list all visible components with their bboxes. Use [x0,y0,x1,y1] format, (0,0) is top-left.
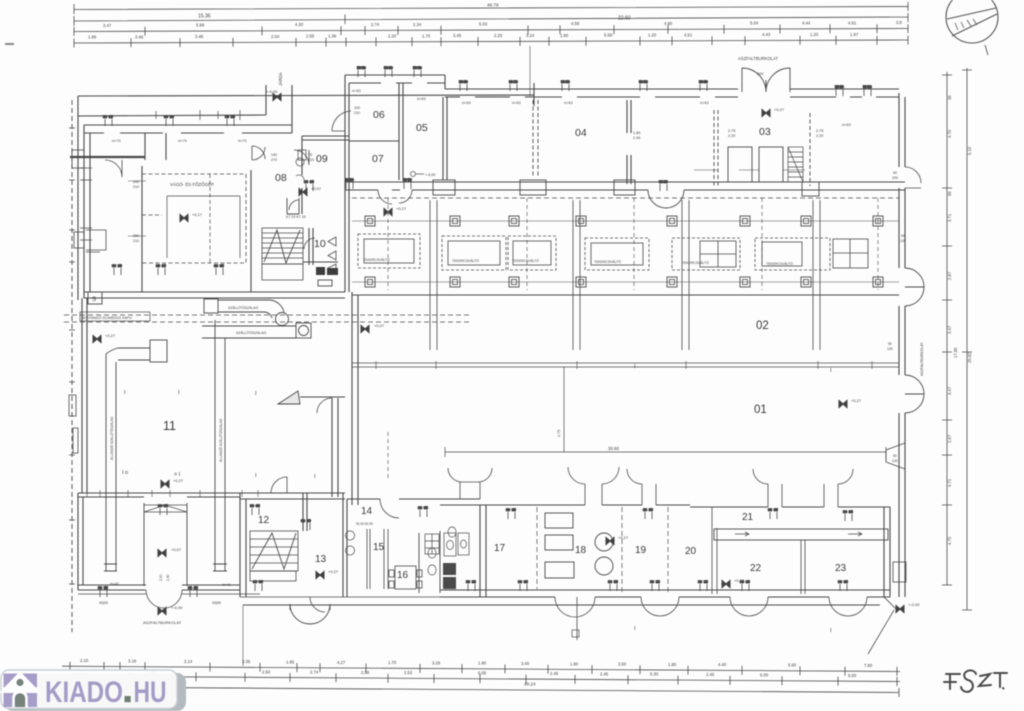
svg-text:I o: I o [122,470,128,476]
window flags bottom wall [98,504,853,597]
bottom door arc pair 4 [829,597,867,616]
corridor door arc into 09 [294,150,309,165]
svg-text:1.20: 1.20 [810,32,819,37]
svg-text:1.36: 1.36 [328,34,337,39]
bottom right corner diagonal leader [868,610,894,654]
svg-text:3.46: 3.46 [135,34,144,39]
svg-text:3.47: 3.47 [947,325,952,334]
svg-text:3.29: 3.29 [432,660,441,665]
svg-text:1.20: 1.20 [648,33,657,38]
svg-text:600: 600 [757,72,763,76]
svg-text:m=63: m=63 [352,89,361,93]
svg-text:2.55: 2.55 [306,34,315,39]
house door gray arch [15,693,25,707]
top dimension line A overall [74,2,908,14]
svg-text:4.30: 4.30 [295,22,304,27]
svg-text:1.80: 1.80 [633,131,640,135]
svg-text:m=70: m=70 [112,139,121,143]
svg-text:2.75: 2.75 [557,430,561,437]
svg-text:3.24: 3.24 [526,33,535,38]
corridor circle elevation mark [411,172,436,178]
svg-text:+-0,00: +-0,00 [266,89,278,94]
left property dashed line [71,100,73,632]
interior wall verticals [142,133,251,292]
svg-text:4.90: 4.90 [664,21,673,26]
svg-text:TEKERCSVÁLTÓ: TEKERCSVÁLTÓ [682,260,709,265]
vestibule door arcs [146,590,182,608]
room numbers bottom band [258,506,847,581]
svg-text:14: 14 [361,506,373,517]
svg-text:96: 96 [947,191,952,196]
svg-text:5.58: 5.58 [604,33,613,38]
period [1002,687,1005,690]
svg-text:m=70: m=70 [238,139,247,143]
svg-text:KIADO: KIADO [45,676,123,709]
svg-text:249: 249 [133,180,139,184]
svg-text:5.04: 5.04 [750,21,759,26]
room 14 door arc [380,499,399,518]
rooms 12/13 top wall [240,493,345,499]
svg-text:100: 100 [354,106,360,110]
logo house icon tile lavender [4,674,38,708]
room 03 interior rect 1 [728,147,752,182]
small cabinets left room [86,230,106,252]
svg-text:1.85: 1.85 [286,660,295,665]
svg-text:+0,27: +0,27 [105,333,116,338]
svg-text:11: 11 [163,419,176,433]
letter T [994,673,1007,687]
svg-text:2.45: 2.45 [550,671,559,676]
vago room inner line [142,174,210,263]
svg-text:2.45: 2.45 [706,672,715,677]
svg-text:210: 210 [133,239,139,243]
right room dim line [694,169,805,171]
machine group 3 [508,236,556,270]
rooms 18-23 top wall with niches [440,505,890,507]
west wall outer rect [72,150,84,168]
bench arrows [735,532,862,536]
partition 18|19 dashed [621,507,623,594]
svg-text:90 90 90 90: 90 90 90 90 [356,522,373,526]
svg-text:5.03: 5.03 [479,22,488,27]
svg-text:2.45: 2.45 [600,671,609,676]
svg-text:3.45: 3.45 [453,33,462,38]
niche doors arcs into hall [568,467,619,505]
bottom door arc pair 3 [730,597,768,616]
svg-text:21: 21 [742,512,754,523]
svg-text:200: 200 [892,176,898,180]
svg-text:49.78: 49.78 [487,3,499,8]
left thin rects [69,395,76,416]
svg-text:2.34: 2.34 [413,22,422,27]
svg-text:2.52: 2.52 [404,670,413,675]
svg-text:+0,27: +0,27 [618,535,629,540]
bottom-left block west wall [78,493,83,590]
main west wall of band [345,75,349,292]
top band step down [444,75,446,89]
svg-text:+0,27: +0,27 [173,478,184,483]
svg-text:3.71: 3.71 [947,213,952,222]
corridor door arcs below south wall [378,190,412,204]
svg-text:m=40: m=40 [110,582,119,586]
svg-text:3.50: 3.50 [618,662,627,667]
svg-text:4.75: 4.75 [947,536,952,545]
svg-text:130: 130 [900,239,906,243]
m=63 labels under north windows [112,89,851,143]
bottom dim row E values [80,658,873,668]
svg-text:ÁLLANDÓ SZÁLLÍTÓSZALAG: ÁLLANDÓ SZÁLLÍTÓSZALAG [218,418,223,462]
letter F [944,674,960,689]
room 09 west wall [301,136,303,214]
stair in corridor [262,228,303,264]
svg-text:3.18: 3.18 [128,658,137,663]
svg-text:TEKERCSVÁLTÓ: TEKERCSVÁLTÓ [512,258,539,263]
svg-text:130: 130 [892,459,898,463]
bottom door arc pair 1 [555,597,595,617]
machine hall column tie line upper [352,220,899,222]
dim ext lines small left block [128,181,146,236]
machine hall column tie line lower [352,281,899,283]
svg-text:4.70: 4.70 [947,129,952,138]
svg-text:TEKERCSVÁLTÓ: TEKERCSVÁLTÓ [452,258,479,263]
svg-text:5.00: 5.00 [848,673,857,678]
svg-text:90: 90 [893,454,897,458]
room 05 east wall [443,97,447,180]
svg-text:2.58: 2.58 [361,670,370,675]
column row lower [365,277,883,287]
svg-text:+-0,00: +-0,00 [908,602,920,607]
machine group 1 [358,234,420,268]
room 13 bottom door arc [310,597,325,612]
machine group 6 with grid [755,238,830,270]
hall 11 west wall lower [82,298,87,493]
svg-text:2.20: 2.20 [816,134,823,138]
room 09 fixture small arc [296,175,304,180]
svg-text:13: 13 [315,554,327,565]
east double door arcs lower pair [905,375,924,413]
top dim row C values [103,20,902,28]
room 18 circles [595,533,613,551]
right dim rotated values [947,95,972,545]
yard edge line [78,83,534,106]
svg-text:+0,27: +0,27 [396,206,407,211]
svg-text:140: 140 [271,153,277,157]
svg-text:4.44: 4.44 [802,21,811,26]
svg-text:+0,07: +0,07 [171,547,182,552]
svg-text:20: 20 [685,546,697,557]
svg-text:05: 05 [416,122,428,134]
svg-text:2.75: 2.75 [728,129,735,133]
machine group 5 with grid [672,238,740,270]
svg-text:3.40: 3.40 [521,661,530,666]
room 03 east dashed wall [809,113,811,186]
svg-text:S: S [92,297,96,303]
bottom-left block east wall [240,493,246,597]
wall 06|05 [399,83,403,180]
svg-text:+-0,00: +-0,00 [425,173,435,177]
svg-text:3.47: 3.47 [947,386,952,395]
svg-text:+0,27: +0,27 [851,398,862,403]
right wall attached box [893,562,906,582]
letter S [961,670,976,692]
conveyor 2 belt [202,323,311,338]
svg-text:BONTANDÓ SCANDIGG KAPU: BONTANDÓ SCANDIGG KAPU [82,315,132,320]
stair lower landing [262,264,303,280]
hall door arc pair below 03 [648,190,684,208]
room 03 interior rect 2 [759,147,783,182]
shower cells [419,531,469,593]
conveyor vertical 1 [104,354,117,571]
room 12 door arc to hall [271,477,287,493]
rooms east wall [884,507,890,597]
svg-text:TEKERCSVÁLTÓ: TEKERCSVÁLTÓ [594,259,621,264]
svg-text:15: 15 [373,542,385,553]
vago dims [133,153,306,243]
corridor walls 14 block [367,529,388,589]
hall11 south wall [78,493,345,497]
svg-text:22: 22 [750,563,762,574]
svg-text:m=63: m=63 [842,123,851,127]
conveyor vertical 2 [213,320,227,571]
bottom right corner step [884,597,897,610]
vago inner solid rect [167,196,240,258]
svg-text:4.91: 4.91 [848,20,857,25]
svg-text:ÁLLANDÓ SZÁLLÍTÓSZALAG: ÁLLANDÓ SZÁLLÍTÓSZALAG [109,416,114,460]
bottom dimension line F with ticks [66,676,900,681]
svg-text:90: 90 [888,342,892,346]
bottom dimension line G overall [62,683,899,697]
dim extension at yard corner [529,46,531,96]
column row upper [365,216,883,226]
svg-text:02: 02 [756,320,769,332]
walkway east wall [291,85,293,133]
svg-text:06: 06 [373,109,385,121]
room 10 dark marks [316,267,325,275]
svg-text:04: 04 [575,127,587,139]
room 10 left wall [303,228,338,265]
svg-text:+0,27: +0,27 [374,323,385,328]
fixtures wc left [346,531,355,555]
left block south wall (double) [84,292,345,298]
room 16|17 wall [480,505,486,597]
dim extension vertical at x243 [242,605,244,666]
machine hall rail pair 1 [430,200,437,350]
svg-text:2.10: 2.10 [80,658,89,663]
svg-text:2.87: 2.87 [947,271,952,280]
top dimension line C with ticks [74,29,908,32]
vestibule walls [144,503,187,586]
svg-text:1.70: 1.70 [422,33,431,38]
svg-text:90|95: 90|95 [212,601,221,605]
svg-text:1.97: 1.97 [850,32,859,37]
svg-text:m=63: m=63 [512,101,521,105]
hall01 width dim line 30.60 [445,447,886,457]
svg-text:30.60: 30.60 [608,446,620,451]
svg-text:09: 09 [316,153,328,165]
washroom 17 fixtures [448,527,456,537]
machine hall rail pair 2 [573,200,580,350]
bottom dim row F values [148,669,857,678]
room 10 door arc from landing [304,238,315,249]
bottom outer wall left part [78,594,440,597]
bottom wall right part [440,590,890,597]
letter Z [979,674,991,686]
building east wall (double) [899,93,905,597]
svg-text:3.46: 3.46 [195,34,204,39]
apron line bottom [243,604,880,606]
svg-text:90|95: 90|95 [99,601,108,605]
svg-text:210: 210 [133,185,139,189]
big double door arc bottom-left13 [290,604,330,624]
svg-text:VÁGÓ- ÉS FŐZŐGÉP: VÁGÓ- ÉS FŐZŐGÉP [170,182,214,187]
svg-text:4.43: 4.43 [762,32,771,37]
svg-text:12: 12 [258,515,270,526]
vestibule truss top [144,505,187,512]
svg-text:ASZFALTBURKOLAT: ASZFALTBURKOLAT [143,620,182,625]
west wall outer rect lower [74,232,84,248]
svg-text:m=63: m=63 [417,97,426,101]
entrance door arcs [742,68,790,92]
I-beam marks row1 [122,364,832,634]
house white strip under roof [4,687,38,691]
svg-text:ASZFALTBURKOLAT: ASZFALTBURKOLAT [738,56,779,61]
svg-text:+-0,00: +-0,00 [171,605,183,610]
svg-text:HU: HU [134,676,167,709]
svg-text:270: 270 [271,158,277,162]
room 09 fixtures [296,150,306,166]
svg-text:1.70: 1.70 [388,660,397,665]
svg-text:ASZFALTBURKOLAT: ASZFALTBURKOLAT [920,342,924,376]
conveyor 1 belt [204,299,289,326]
room 18 cabinets [545,513,574,578]
benchmark at vestibule door [158,608,166,615]
room 10 fixtures right triangles [328,237,336,272]
svg-text:SZÁLLÍTÓSZALAG: SZÁLLÍTÓSZALAG [236,330,267,335]
svg-text:+0,27: +0,27 [328,569,339,574]
niche 3 [753,469,782,507]
svg-text:TEKERCSVÁLTÓ: TEKERCSVÁLTÓ [766,261,793,266]
svg-text:2.40: 2.40 [166,574,170,581]
svg-text:2.40: 2.40 [633,136,640,140]
spot elevation markers [93,89,920,613]
svg-text:2.50: 2.50 [262,669,271,674]
fan door wedge [278,391,345,404]
svg-text:1.80: 1.80 [570,661,579,666]
svg-text:5.00: 5.00 [760,672,769,677]
svg-text:m=63: m=63 [462,101,471,105]
gate label box [80,312,150,321]
vago east double door arcs [252,146,265,160]
svg-text:17.80: 17.80 [953,347,958,358]
svg-text:23: 23 [835,563,847,574]
table with chairs room16 [389,566,422,589]
svg-text:18: 18 [575,545,587,556]
svg-text:m=63: m=63 [700,101,709,105]
svg-text:49.24: 49.24 [524,682,536,687]
house roof white triangle [0,671,41,693]
svg-text:17: 17 [494,543,506,554]
wall 12|13 [303,493,307,531]
room 13 east wall [343,493,347,597]
svg-text:5.98: 5.98 [196,23,205,28]
right dimension line inner [942,72,952,585]
corner scan mark top-left [5,43,14,45]
dashed gate lines [64,315,470,322]
machine grid right [833,239,868,268]
dark sinks [443,563,456,575]
svg-text:2.75: 2.75 [816,129,823,133]
svg-text:3.8: 3.8 [896,20,902,25]
machine hall dashed centerlines [388,198,878,290]
machine hall rail pair 4 [813,200,820,350]
svg-text:+0,17: +0,17 [192,212,203,217]
svg-text:1.90: 1.90 [478,661,487,666]
svg-text:22.60: 22.60 [618,16,631,22]
property line tick marks [69,128,75,584]
svg-text:10: 10 [314,238,326,250]
bottom door arc pair 2 [641,597,679,616]
top dim row D values [88,32,859,40]
svg-text:1.80: 1.80 [560,33,569,38]
svg-text:5.05: 5.05 [478,671,487,676]
svg-text:2.25: 2.25 [494,33,503,38]
svg-text:K7 20 K7 20: K7 20 K7 20 [286,215,306,219]
svg-text:16: 16 [397,570,409,581]
east double door arcs upper pair [905,268,924,306]
niche 4 [824,469,853,507]
room 04 west dashed wall [533,100,538,176]
logo white box [1,670,177,709]
niche with arcs near room 17 [448,468,492,499]
svg-text:JÁRDA: JÁRDA [278,72,283,86]
svg-text:5.50: 5.50 [788,663,797,668]
main north wall (double) with entrance gap [445,88,899,90]
bottom-left block south wall [78,585,240,590]
svg-text:3.47: 3.47 [103,23,112,28]
svg-text:4.27: 4.27 [337,660,346,665]
svg-text:SZÁLLÍTÓSZALAG: SZÁLLÍTÓSZALAG [228,305,259,310]
svg-text:3.35: 3.35 [242,659,251,664]
KIADO.HU watermark [0,670,186,711]
corridor passage jambs [287,198,299,214]
top band north wall 06/05 (double) [345,75,445,83]
svg-text:1.80: 1.80 [668,662,677,667]
svg-text:75: 75 [308,153,312,157]
svg-text:+0,27: +0,27 [774,107,785,112]
house head dot [16,679,23,686]
south wall of top band (double) [345,182,905,190]
interior heavy room line [70,156,145,158]
svg-text:26.82: 26.82 [967,352,972,363]
hall11 east wall [332,398,338,497]
corridor passage arc [289,200,299,210]
bench long rect rooms21-23 [714,529,888,540]
partition 20|21 [712,507,717,594]
wall 06|07 [349,140,399,142]
rooms 14-16 block top wall [347,498,480,500]
svg-text:210: 210 [308,158,314,162]
svg-text:2.04: 2.04 [271,34,280,39]
logo dot [125,696,131,702]
logo shadow box [4,673,186,711]
machine hall top dashed lines [352,197,899,199]
interior door arc left room [105,160,122,177]
svg-text:4.71: 4.71 [947,478,952,487]
machine hall bottom line [352,294,899,296]
svg-text:36: 36 [947,95,952,100]
partition 19|20 dashed [667,507,669,594]
svg-text:m=70: m=70 [178,139,187,143]
